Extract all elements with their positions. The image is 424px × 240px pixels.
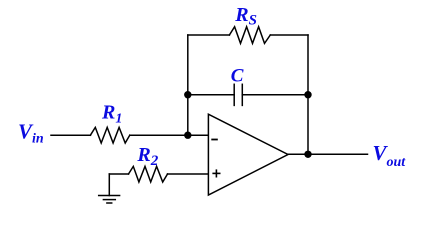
svg-text:R2: R2: [136, 144, 158, 169]
op-amp noninverting pin marker: [213, 170, 220, 177]
wire cap lead left: [188, 94, 234, 96]
wire R1 to inverting input: [130, 134, 208, 136]
node cap right junction: [304, 91, 311, 98]
svg-text:R1: R1: [101, 102, 122, 127]
resistor RS: [229, 27, 270, 44]
svg-text:Vout: Vout: [373, 141, 407, 170]
capacitor C: [234, 84, 242, 105]
svg-text:RS: RS: [234, 4, 257, 28]
op-amp U1: [208, 114, 288, 195]
wire top lead left: [188, 34, 230, 36]
svg-text:C: C: [231, 66, 244, 87]
svg-text:Vin: Vin: [18, 120, 44, 147]
wire right feedback vertical: [307, 35, 309, 154]
node inverting input junction: [184, 132, 191, 139]
wire R2 left lead: [109, 173, 128, 175]
wire top lead right: [270, 34, 308, 36]
resistor R1: [90, 127, 129, 143]
wire left feedback vertical: [187, 35, 189, 135]
wire down to ground: [108, 174, 110, 196]
op-amp inverting pin marker: [212, 139, 217, 141]
ground: [99, 196, 120, 204]
wire R2 to noninverting input: [168, 173, 209, 175]
wire Vin lead: [51, 134, 90, 136]
resistor R2: [129, 166, 168, 182]
wire output: [288, 153, 368, 155]
node cap left junction: [184, 91, 191, 98]
node output junction: [304, 151, 311, 158]
wire cap lead right: [242, 94, 308, 96]
